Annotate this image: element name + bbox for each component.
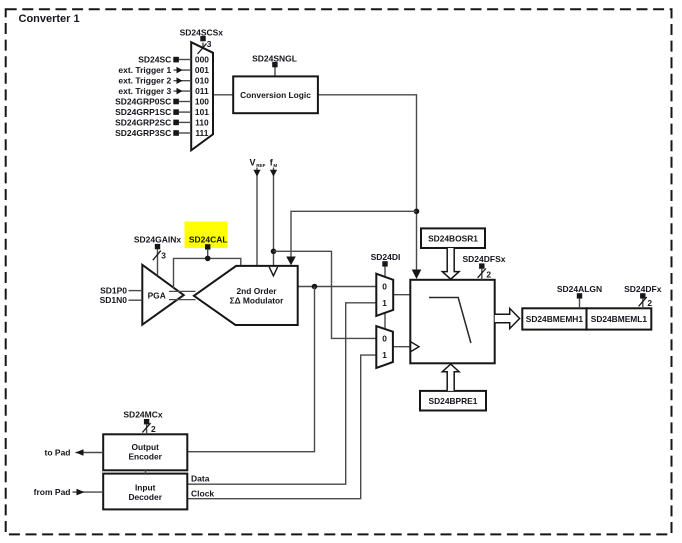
- block arrow BOSR1 to filter: [442, 248, 459, 279]
- svg-text:Clock: Clock: [191, 488, 214, 498]
- svg-text:ΣΔ Modulator: ΣΔ Modulator: [230, 296, 285, 306]
- input ext. Trigger 2: [118, 76, 191, 86]
- terminal SD24SNGL: [252, 53, 297, 67]
- register SD24BMEML1: [587, 308, 652, 329]
- arrowhead feedback into modulator: [286, 257, 296, 266]
- svg-text:Encoder: Encoder: [128, 451, 162, 461]
- svg-text:SD24MCx: SD24MCx: [123, 410, 162, 420]
- svg-text:ext. Trigger 2: ext. Trigger 2: [118, 76, 171, 86]
- input SD1P0: [100, 285, 142, 295]
- svg-text:0: 0: [382, 281, 387, 291]
- wire data mux output to filter: [393, 294, 410, 296]
- svg-text:SD24BMEMH1: SD24BMEMH1: [526, 314, 584, 324]
- input SD24GRP3SC: [115, 128, 191, 138]
- wire Vref line: [256, 168, 258, 266]
- wire SD24SNGL to Conversion Logic: [274, 67, 276, 77]
- wire feedback branch to modulator: [291, 211, 417, 258]
- register SD24BMEMH1: [522, 308, 586, 329]
- arrowhead feedback into filter: [412, 270, 422, 280]
- svg-text:2: 2: [486, 269, 491, 279]
- wire fM line: [273, 168, 275, 268]
- svg-text:100: 100: [195, 96, 209, 106]
- input from Pad: [34, 487, 104, 497]
- wire modulator output tap to Output Encoder: [187, 287, 314, 452]
- svg-text:SD24ALGN: SD24ALGN: [557, 284, 602, 294]
- input SD24GRP0SC: [115, 96, 191, 106]
- svg-text:2: 2: [151, 424, 156, 434]
- svg-text:M: M: [273, 163, 277, 168]
- svg-text:V: V: [250, 158, 256, 168]
- terminal SD24SCSx with width 3: [180, 27, 224, 54]
- svg-text:SD24SNGL: SD24SNGL: [252, 53, 297, 63]
- wire mux output to Conversion Logic: [213, 94, 233, 96]
- svg-text:SD24DI: SD24DI: [371, 252, 401, 262]
- node junction on fM line: [271, 249, 277, 255]
- svg-text:SD24GRP0SC: SD24GRP0SC: [115, 96, 171, 106]
- input SD24GRP2SC: [115, 117, 191, 127]
- svg-text:Converter 1: Converter 1: [19, 13, 80, 25]
- terminal SD24DI: [371, 252, 401, 267]
- wire select between muxes: [384, 313, 386, 330]
- wire differential pair PGA to modulator: [169, 291, 196, 299]
- block arrow BPRE1 to filter: [442, 364, 459, 391]
- terminal SD24GAINx with width 3: [134, 235, 182, 276]
- svg-text:SD24GRP2SC: SD24GRP2SC: [115, 117, 171, 127]
- arrowhead fM: [270, 170, 277, 177]
- output to Pad: [45, 448, 104, 458]
- wire SD24CAL to PGA and modulator: [174, 250, 241, 288]
- terminal SD24DFSx with width 2: [463, 254, 506, 280]
- PGA amplifier: [142, 265, 183, 325]
- svg-text:Output: Output: [131, 442, 159, 452]
- wire Conversion Logic output feedback: [318, 95, 417, 272]
- svg-text:from Pad: from Pad: [34, 487, 71, 497]
- svg-text:SD24SC: SD24SC: [138, 54, 171, 64]
- terminal SD24MCx with width 2: [123, 410, 162, 435]
- terminal SD24DFx with width 2: [624, 284, 662, 308]
- svg-text:to Pad: to Pad: [45, 448, 71, 458]
- terminal SD24ALGN: [557, 284, 602, 308]
- svg-text:SD1N0: SD1N0: [100, 295, 128, 305]
- svg-text:000: 000: [195, 54, 209, 64]
- wire fM branch to clock mux input 0: [274, 251, 377, 338]
- svg-text:Data: Data: [191, 474, 210, 484]
- node junction SD24CAL: [205, 256, 211, 262]
- svg-text:Conversion Logic: Conversion Logic: [240, 90, 311, 100]
- label Vref: [250, 158, 266, 168]
- svg-text:SD24BPRE1: SD24BPRE1: [429, 396, 478, 406]
- svg-text:SD24DFx: SD24DFx: [624, 284, 662, 294]
- svg-text:SD24BMEML1: SD24BMEML1: [591, 314, 648, 324]
- svg-text:SD24CAL: SD24CAL: [189, 235, 228, 245]
- conversion logic box: [233, 76, 318, 113]
- mux clock select: [376, 326, 393, 368]
- svg-text:1: 1: [382, 350, 387, 360]
- register SD24BOSR1: [421, 228, 485, 248]
- svg-text:SD24GRP3SC: SD24GRP3SC: [115, 128, 171, 138]
- arrowhead Vref: [253, 170, 260, 177]
- svg-text:REF: REF: [256, 163, 265, 168]
- label fM: [270, 158, 278, 169]
- svg-text:SD24GAINx: SD24GAINx: [134, 235, 182, 245]
- svg-text:SD1P0: SD1P0: [100, 285, 127, 295]
- clock chevron fM into modulator: [269, 267, 277, 276]
- wire encoder to decoder: [145, 470, 147, 473]
- wire clock mux output to filter: [393, 346, 410, 348]
- block arrow filter to memory: [495, 308, 520, 328]
- svg-text:SD24DFSx: SD24DFSx: [463, 254, 506, 264]
- svg-text:ext. Trigger 3: ext. Trigger 3: [118, 86, 171, 96]
- wire Clock from Input Decoder to clock mux input 1: [187, 355, 376, 499]
- input decoder box: [103, 474, 187, 510]
- terminal SD24CAL highlighted: [185, 222, 228, 250]
- wire modulator output to data mux input 0: [298, 286, 377, 288]
- sigma-delta modulator: [194, 266, 298, 325]
- svg-text:Input: Input: [135, 483, 156, 493]
- svg-text:SD24SCSx: SD24SCSx: [180, 27, 224, 37]
- node junction at feedback split: [414, 209, 420, 215]
- svg-text:PGA: PGA: [148, 290, 166, 300]
- svg-text:SD24BOSR1: SD24BOSR1: [428, 233, 478, 243]
- input SD1N0: [100, 295, 143, 305]
- svg-text:3: 3: [207, 39, 212, 49]
- svg-text:1: 1: [382, 298, 387, 308]
- register SD24BPRE1: [420, 391, 486, 411]
- input SD24GRP1SC: [115, 107, 191, 117]
- svg-text:Decoder: Decoder: [128, 492, 162, 502]
- wire Data from Input Decoder to data mux input 1: [187, 303, 376, 484]
- mux SCS select: [191, 42, 213, 150]
- svg-text:0: 0: [382, 333, 387, 343]
- digital filter box: [410, 280, 494, 364]
- svg-text:001: 001: [195, 65, 209, 75]
- svg-text:010: 010: [195, 76, 209, 86]
- input ext. Trigger 1: [118, 65, 191, 75]
- output encoder box: [103, 434, 187, 470]
- input ext. Trigger 3: [118, 86, 191, 96]
- svg-text:101: 101: [195, 107, 209, 117]
- svg-text:3: 3: [161, 250, 166, 260]
- svg-text:ext. Trigger 1: ext. Trigger 1: [118, 65, 171, 75]
- svg-text:011: 011: [195, 86, 209, 96]
- wire SD24DI to data mux: [384, 266, 386, 277]
- svg-text:110: 110: [195, 117, 209, 127]
- svg-text:SD24GRP1SC: SD24GRP1SC: [115, 107, 171, 117]
- mux data select: [376, 274, 393, 316]
- input SD24SC: [138, 54, 191, 64]
- svg-text:2: 2: [647, 298, 652, 308]
- svg-text:111: 111: [195, 128, 208, 138]
- wire SD24SCSx to mux select: [202, 43, 204, 49]
- node junction at modulator output: [312, 284, 318, 290]
